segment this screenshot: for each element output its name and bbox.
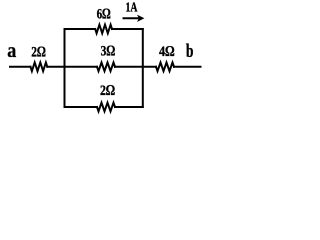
resistor R 3ohm middle branch xyxy=(97,63,115,72)
wire: lead-out to node b xyxy=(174,66,201,68)
wire: left vertical junction riser xyxy=(64,29,66,107)
svg-text:b: b xyxy=(186,41,194,62)
wire: right vertical junction riser xyxy=(142,29,144,107)
resistor R 4ohm right xyxy=(156,63,174,72)
svg-text:2Ω: 2Ω xyxy=(100,83,115,99)
svg-text:1A: 1A xyxy=(126,1,139,16)
wire: bottom branch right segment xyxy=(115,106,143,108)
resistor R 6ohm top branch xyxy=(95,25,112,34)
current arrow 1A xyxy=(123,15,145,22)
resistor R 2ohm left xyxy=(31,63,48,72)
svg-text:a: a xyxy=(7,40,16,62)
wire: between 2ohm and middle branch xyxy=(47,66,97,68)
wire: top branch right segment xyxy=(112,28,143,30)
svg-text:2Ω: 2Ω xyxy=(31,45,46,61)
resistor R 2ohm bottom branch xyxy=(97,103,115,112)
svg-text:6Ω: 6Ω xyxy=(97,6,111,22)
wire: between 3ohm and 4ohm xyxy=(115,66,156,68)
wire: top branch left segment xyxy=(65,28,96,30)
svg-text:4Ω: 4Ω xyxy=(159,44,175,60)
svg-text:3Ω: 3Ω xyxy=(101,44,116,60)
wire: node a lead-in xyxy=(10,66,31,68)
wire: bottom branch left segment xyxy=(65,106,98,108)
